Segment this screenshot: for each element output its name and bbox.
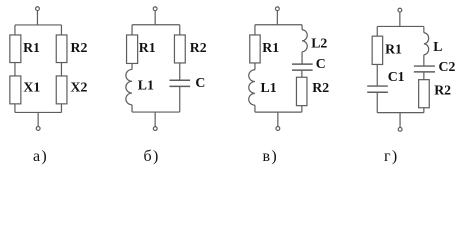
inductor L1 xyxy=(126,69,132,104)
resistor R1 xyxy=(250,35,260,63)
wire top terminal to bus xyxy=(276,11,278,25)
wire top bus xyxy=(377,25,424,27)
wire bus to bottom terminal xyxy=(37,112,39,126)
svg-text:R1: R1 xyxy=(23,40,40,55)
wire bus to bottom terminal xyxy=(154,112,156,127)
wire bus to bottom terminal xyxy=(399,113,401,128)
wire bottom bus xyxy=(255,111,302,113)
wire between R1 and L1 xyxy=(254,63,256,70)
wire between C and R2 xyxy=(301,71,303,78)
svg-text:R2: R2 xyxy=(434,82,451,97)
wire top bus xyxy=(255,24,302,26)
capacitor C xyxy=(169,79,190,81)
wire right branch bottom xyxy=(60,104,62,113)
wire top terminal to bus xyxy=(36,11,38,25)
wire top terminal to bus xyxy=(154,11,156,25)
resistor R2 xyxy=(419,80,430,108)
svg-text:в): в) xyxy=(263,148,278,165)
wire left branch bottom xyxy=(254,105,256,112)
terminal bottom (circuit b) xyxy=(153,127,157,131)
svg-text:C: C xyxy=(195,75,205,90)
wire between R2 and X2 xyxy=(60,63,62,76)
svg-text:R2: R2 xyxy=(71,40,88,55)
wire right branch top xyxy=(60,25,62,35)
wire left branch bottom xyxy=(376,93,378,113)
svg-text:C1: C1 xyxy=(388,69,405,84)
svg-text:L2: L2 xyxy=(311,36,327,51)
wire right branch top xyxy=(423,26,425,32)
svg-text:R2: R2 xyxy=(190,40,207,55)
resistor X2 xyxy=(56,76,67,104)
resistor R2 xyxy=(174,35,185,63)
svg-text:б): б) xyxy=(144,148,160,165)
svg-text:R2: R2 xyxy=(312,80,329,95)
svg-text:C: C xyxy=(316,56,326,71)
wire between L and C2 xyxy=(423,55,425,66)
svg-text:г): г) xyxy=(384,148,399,165)
capacitor C xyxy=(292,63,313,65)
wire top bus xyxy=(132,24,180,26)
terminal top (circuit v) xyxy=(275,7,279,11)
svg-text:L1: L1 xyxy=(261,80,277,95)
svg-text:X2: X2 xyxy=(71,79,88,94)
wire left branch top xyxy=(376,26,378,36)
wire between C2 and R2 xyxy=(423,72,425,79)
svg-text:C2: C2 xyxy=(439,59,456,74)
wire left branch top xyxy=(14,25,16,35)
inductor L2 xyxy=(302,30,307,52)
wire top bus xyxy=(15,24,62,26)
svg-text:R1: R1 xyxy=(139,40,156,55)
terminal bottom (circuit a) xyxy=(36,127,40,131)
wire right branch top xyxy=(301,25,303,30)
terminal bottom (circuit v) xyxy=(276,127,280,131)
wire bottom bus xyxy=(132,111,180,113)
wire bottom bus xyxy=(377,112,424,114)
svg-text:R1: R1 xyxy=(262,40,279,55)
resistor R1 xyxy=(10,35,21,63)
svg-text:R1: R1 xyxy=(385,42,402,57)
wire top terminal to bus xyxy=(399,12,401,26)
inductor L xyxy=(424,33,429,55)
wire left branch top xyxy=(131,25,133,35)
wire bottom bus xyxy=(15,111,62,113)
terminal top (circuit a) xyxy=(36,7,40,11)
wire left branch bottom xyxy=(131,105,133,112)
capacitor C1 xyxy=(367,85,388,87)
wire right branch top xyxy=(179,25,181,35)
resistor R1 xyxy=(372,36,383,64)
wire between R1 and X1 xyxy=(14,63,16,76)
capacitor C2 xyxy=(414,65,435,67)
svg-text:L: L xyxy=(433,39,442,54)
wire between R2 and C xyxy=(179,63,181,80)
wire right branch bottom xyxy=(301,106,303,113)
wire left branch top xyxy=(254,25,256,35)
wire right branch bottom xyxy=(423,108,425,113)
resistor R1 xyxy=(127,35,138,64)
resistor X1 xyxy=(10,76,21,104)
resistor R2 xyxy=(296,77,307,105)
svg-text:L1: L1 xyxy=(138,78,154,93)
terminal bottom (circuit g) xyxy=(398,127,402,131)
wire bus to bottom terminal xyxy=(277,112,279,126)
inductor L1 xyxy=(249,70,255,105)
wire between L2 and C xyxy=(301,52,303,64)
wire left branch bottom xyxy=(14,104,16,113)
wire between R1 and L1 xyxy=(131,63,133,69)
svg-text:а): а) xyxy=(33,148,48,165)
wire between R1 and C1 xyxy=(376,64,378,85)
wire right branch bottom xyxy=(179,87,181,112)
terminal top (circuit b) xyxy=(153,7,157,11)
resistor R2 xyxy=(56,35,67,63)
terminal top (circuit g) xyxy=(398,8,402,12)
svg-text:X1: X1 xyxy=(23,79,40,94)
